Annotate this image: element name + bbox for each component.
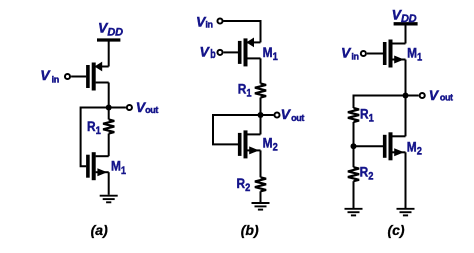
- svg-text:Vin: Vin: [196, 13, 213, 29]
- svg-text:Vout: Vout: [281, 106, 305, 123]
- svg-text:Vout: Vout: [136, 99, 159, 115]
- svg-text:(a): (a): [91, 222, 108, 238]
- svg-text:Vin: Vin: [341, 45, 359, 62]
- svg-text:M2: M2: [407, 139, 422, 158]
- svg-text:VDD: VDD: [392, 6, 417, 25]
- svg-text:R2: R2: [237, 175, 251, 194]
- svg-text:R1: R1: [87, 118, 101, 137]
- svg-text:(b): (b): [241, 222, 259, 238]
- svg-text:V: V: [200, 44, 211, 60]
- svg-text:R1: R1: [360, 106, 374, 125]
- svg-text:b: b: [210, 49, 215, 61]
- svg-text:R1: R1: [238, 81, 252, 100]
- svg-text:(c): (c): [387, 222, 404, 238]
- svg-text:M1: M1: [263, 44, 278, 63]
- svg-text:Vout: Vout: [429, 87, 453, 103]
- svg-text:M2: M2: [263, 135, 278, 154]
- svg-text:Vin: Vin: [40, 67, 59, 84]
- svg-text:M1: M1: [407, 44, 422, 63]
- svg-text:R2: R2: [360, 163, 374, 182]
- svg-text:M1: M1: [111, 158, 126, 177]
- svg-text:VDD: VDD: [98, 20, 123, 39]
